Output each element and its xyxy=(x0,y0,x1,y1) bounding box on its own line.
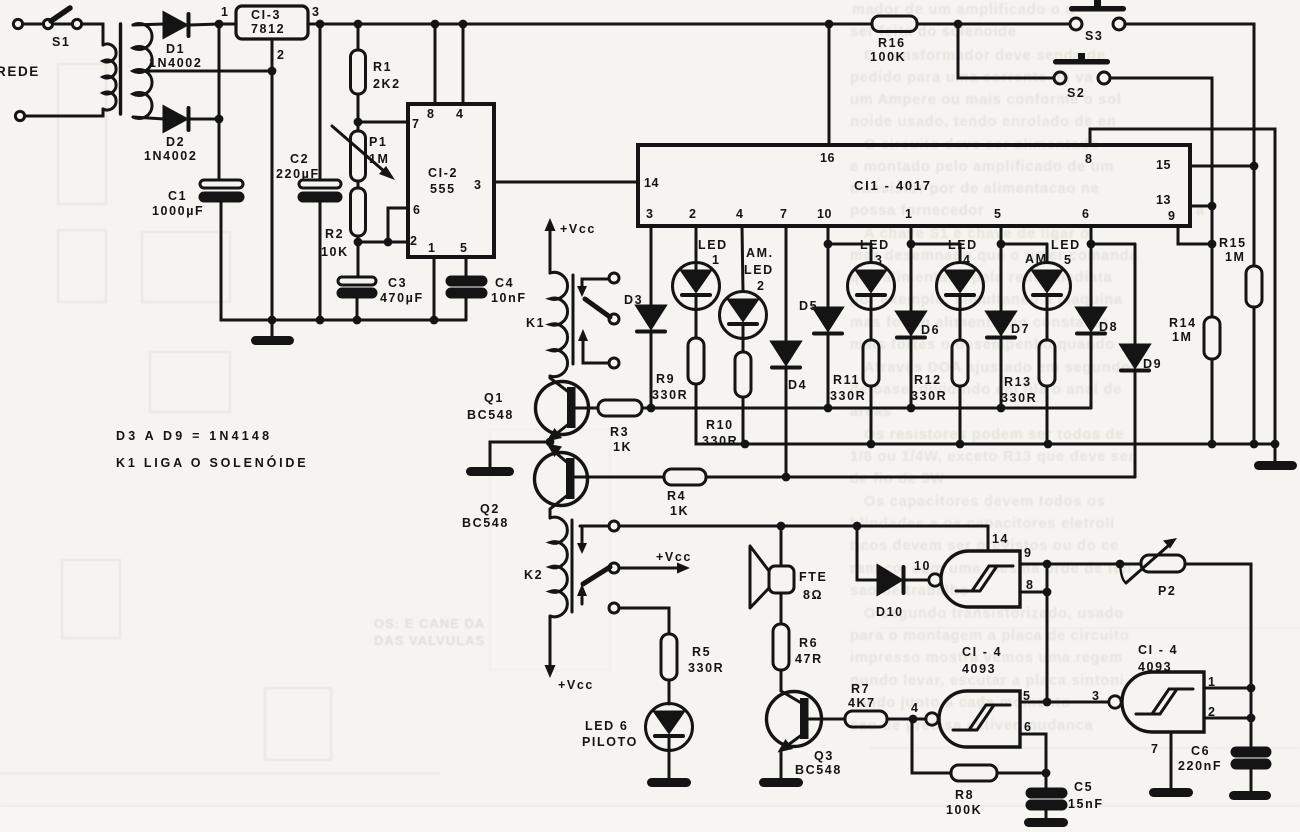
pushbutton S3 xyxy=(1069,0,1126,43)
svg-text:R9: R9 xyxy=(656,372,675,386)
wire xyxy=(917,23,1070,26)
wire pin10 xyxy=(828,226,871,244)
diode D6 xyxy=(897,244,940,408)
wire pin2 xyxy=(358,241,408,244)
svg-text:10K: 10K xyxy=(321,245,349,259)
node junction xyxy=(997,404,1006,413)
node junction xyxy=(1044,440,1053,449)
transformer core xyxy=(119,24,122,114)
node junction xyxy=(431,20,440,29)
capacitor C3 470uF xyxy=(338,276,424,320)
svg-text:8: 8 xyxy=(1085,152,1092,166)
svg-text:Q1: Q1 xyxy=(484,391,504,405)
diode D9 xyxy=(1121,244,1162,477)
LED1 xyxy=(673,238,728,310)
transformer T1 primary xyxy=(103,44,116,110)
svg-text:3: 3 xyxy=(312,5,319,19)
node junction xyxy=(1042,769,1051,778)
svg-text:6: 6 xyxy=(413,203,420,217)
wire base Q1 xyxy=(574,407,598,410)
svg-text:330R: 330R xyxy=(1001,391,1037,405)
svg-text:+Vcc: +Vcc xyxy=(656,550,692,564)
wire pin5 xyxy=(1020,701,1108,704)
svg-text:LED: LED xyxy=(744,263,774,277)
transistor Q1 BC548 xyxy=(467,376,589,442)
wire emitter node to ground xyxy=(490,442,550,468)
svg-text:D3 A D9 = 1N4148: D3 A D9 = 1N4148 xyxy=(116,429,272,443)
ground symbol xyxy=(1254,444,1297,470)
wire pin16 to rail xyxy=(828,24,831,145)
svg-text:C1: C1 xyxy=(168,189,187,203)
svg-text:mor desemnado que o timer coma: mor desemnado que o timer comanda xyxy=(850,248,1138,264)
svg-text:3: 3 xyxy=(646,207,653,221)
capacitor C5 15nF xyxy=(1027,780,1104,819)
wire pin5 xyxy=(1001,226,1047,244)
svg-text:10: 10 xyxy=(914,559,931,573)
resistor R9 330R xyxy=(652,310,704,403)
node junction xyxy=(1208,240,1217,249)
node junction xyxy=(1250,162,1259,171)
wire pin7 xyxy=(785,226,788,342)
wire pin1 to ground rail xyxy=(433,257,436,320)
svg-text:7812: 7812 xyxy=(251,22,285,36)
svg-text:15nF: 15nF xyxy=(1068,797,1104,811)
svg-text:3: 3 xyxy=(875,253,884,267)
node junction xyxy=(647,404,656,413)
wire pin1 xyxy=(911,226,960,244)
svg-text:K2: K2 xyxy=(524,568,543,582)
svg-text:R13: R13 xyxy=(1004,375,1032,389)
svg-text:R11: R11 xyxy=(833,373,860,387)
svg-text:D9: D9 xyxy=(1143,357,1162,371)
capacitor C2 220uF xyxy=(276,24,341,320)
diode D7 xyxy=(987,244,1030,408)
ground symbol xyxy=(1024,818,1068,827)
node junction xyxy=(824,240,833,249)
diode D1 1N4002 xyxy=(149,13,202,70)
svg-text:mas forem alimentacao constant: mas forem alimentacao constante xyxy=(850,315,1109,331)
svg-text:S1: S1 xyxy=(52,35,71,49)
resistor R13 330R xyxy=(1001,310,1055,445)
svg-text:C2: C2 xyxy=(290,152,309,166)
resistor R6 47R xyxy=(773,593,823,670)
svg-text:8: 8 xyxy=(1026,578,1035,592)
svg-text:BC548: BC548 xyxy=(462,516,509,530)
wire R8 feedback xyxy=(912,719,1046,773)
diode D3 xyxy=(624,293,665,408)
svg-text:5: 5 xyxy=(460,241,467,255)
node junction xyxy=(316,20,325,29)
capacitor C4 10nF xyxy=(447,276,527,320)
svg-text:8Ω: 8Ω xyxy=(803,588,823,602)
svg-text:para o montagem a placa de cir: para o montagem a placa de circuito xyxy=(850,628,1129,644)
svg-text:47R: 47R xyxy=(795,652,823,666)
svg-text:D2: D2 xyxy=(166,135,185,149)
node junction xyxy=(1087,240,1096,249)
relay coil K1 xyxy=(526,272,573,376)
svg-text:AM: AM xyxy=(1025,252,1048,266)
wire pin3 xyxy=(650,226,653,306)
svg-text:D7: D7 xyxy=(1011,322,1030,336)
ground symbol xyxy=(466,467,514,476)
wire pin7 to ground xyxy=(1170,732,1173,789)
svg-text:4093: 4093 xyxy=(962,662,996,676)
svg-text:+Vcc: +Vcc xyxy=(560,222,596,236)
svg-text:1K: 1K xyxy=(670,504,689,518)
node junction xyxy=(954,20,963,29)
svg-text:e montado pelo amplificado de: e montado pelo amplificado de um xyxy=(850,159,1114,175)
ground symbol xyxy=(1149,788,1193,797)
svg-text:Q2: Q2 xyxy=(480,502,500,516)
svg-text:D8: D8 xyxy=(1099,320,1118,334)
wire pin4 to rail xyxy=(462,24,465,104)
node junction xyxy=(1208,202,1217,211)
svg-text:6: 6 xyxy=(1024,720,1033,734)
svg-text:R4: R4 xyxy=(667,489,686,503)
+Vcc arrow K1 top xyxy=(545,218,596,273)
svg-text:16: 16 xyxy=(820,151,835,165)
resistor R3 1K xyxy=(598,400,642,454)
resistor R10 330R xyxy=(702,339,751,449)
svg-text:3: 3 xyxy=(1092,689,1101,703)
capacitor C6 220nF xyxy=(1178,744,1270,792)
svg-text:LED: LED xyxy=(948,238,978,252)
node junction xyxy=(1247,714,1256,723)
wire pin2 xyxy=(695,226,698,262)
nand gate U4c (pins 1,2,3) xyxy=(1092,672,1217,756)
wire pin9 xyxy=(1178,226,1212,244)
ground symbol xyxy=(759,778,803,787)
wire pin5 to C4 xyxy=(465,257,468,277)
svg-text:220nF: 220nF xyxy=(1178,759,1222,773)
resistor R11 330R xyxy=(830,310,879,445)
transistor Q3 BC548 xyxy=(767,670,842,779)
svg-text:REDE: REDE xyxy=(0,64,40,79)
node junction xyxy=(1271,440,1280,449)
svg-text:R7: R7 xyxy=(851,682,870,696)
relay coil K2 xyxy=(524,517,572,617)
wire pin4 xyxy=(742,226,743,292)
svg-text:BC548: BC548 xyxy=(795,763,842,777)
svg-text:LED: LED xyxy=(698,238,728,252)
wire pin1 xyxy=(1204,687,1251,690)
svg-text:1: 1 xyxy=(905,207,912,221)
svg-text:CI - 4: CI - 4 xyxy=(1138,643,1178,657)
svg-text:S2: S2 xyxy=(1067,86,1086,100)
resistor R7 4K7 xyxy=(845,682,887,727)
svg-text:BC548: BC548 xyxy=(467,408,514,422)
svg-text:5: 5 xyxy=(1064,253,1073,267)
wire xyxy=(190,118,219,121)
svg-text:2: 2 xyxy=(689,207,696,221)
node junction xyxy=(867,440,876,449)
node junction xyxy=(956,440,965,449)
node junction xyxy=(741,440,750,449)
svg-text:D1: D1 xyxy=(166,42,185,56)
svg-text:R1: R1 xyxy=(373,60,392,74)
resistor R15 1M xyxy=(1219,166,1262,444)
svg-text:5: 5 xyxy=(994,207,1001,221)
node junction xyxy=(215,115,224,124)
counter CI1 4017 xyxy=(638,145,1190,226)
label CI-4 4093 second xyxy=(1138,643,1178,674)
svg-text:Os capacitores devem todos os: Os capacitores devem todos os xyxy=(864,494,1106,510)
node junction xyxy=(268,316,277,325)
nand gate U4a (pins 8,9,10) xyxy=(929,532,1035,607)
svg-text:C3: C3 xyxy=(388,276,407,290)
diode D2 1N4002 xyxy=(144,107,197,163)
node junction xyxy=(384,238,393,247)
svg-text:330R: 330R xyxy=(702,434,738,448)
wire center tap xyxy=(133,70,272,73)
svg-text:FTE: FTE xyxy=(799,570,827,584)
node junction xyxy=(853,522,862,531)
node junction xyxy=(353,316,362,325)
svg-text:noide usado, tendo enrolado de: noide usado, tendo enrolado de en xyxy=(850,114,1116,130)
svg-text:330R: 330R xyxy=(830,389,866,403)
svg-text:1: 1 xyxy=(428,241,435,255)
svg-text:LED: LED xyxy=(1051,238,1081,252)
svg-text:2: 2 xyxy=(410,234,417,248)
svg-text:470µF: 470µF xyxy=(380,291,424,305)
potentiometer P2 xyxy=(1047,538,1185,598)
node junction xyxy=(430,316,439,325)
node junction xyxy=(907,240,916,249)
svg-text:7: 7 xyxy=(412,117,419,131)
svg-text:C5: C5 xyxy=(1074,780,1093,794)
svg-text:1000µF: 1000µF xyxy=(152,204,204,218)
svg-text:C4: C4 xyxy=(495,276,514,290)
wire xyxy=(82,24,103,45)
wire base Q2 xyxy=(573,476,664,479)
svg-text:sao de trabalho: sao de trabalho xyxy=(850,583,969,599)
wire ground bus xyxy=(696,384,1275,444)
LED5 xyxy=(1024,238,1081,310)
diode D8 xyxy=(1077,244,1118,408)
timer CI-2 555 xyxy=(408,104,494,257)
svg-text:4: 4 xyxy=(456,107,463,121)
ground symbol xyxy=(251,320,294,345)
wire xyxy=(133,117,164,119)
svg-text:K1: K1 xyxy=(526,316,545,330)
wire R7 to gate2 output xyxy=(887,718,926,721)
switch S1 xyxy=(13,8,81,49)
svg-text:2: 2 xyxy=(757,279,766,293)
wire diode bus to R3 xyxy=(642,407,1091,410)
svg-text:CI1 - 4017: CI1 - 4017 xyxy=(854,178,932,193)
svg-text:OS: E CANE DA: OS: E CANE DA xyxy=(374,616,485,631)
wire pin9 xyxy=(1020,563,1047,566)
node junction xyxy=(546,438,555,447)
node junction xyxy=(215,20,224,29)
node junction xyxy=(824,404,833,413)
svg-text:LED 6: LED 6 xyxy=(585,719,628,733)
wire +12V top rail xyxy=(308,23,872,26)
svg-text:R3: R3 xyxy=(610,425,629,439)
svg-text:330R: 330R xyxy=(652,388,688,402)
svg-text:D4: D4 xyxy=(788,378,807,392)
svg-text:220µF: 220µF xyxy=(276,167,320,181)
svg-text:100K: 100K xyxy=(870,50,906,64)
node junction xyxy=(354,238,363,247)
wire pin6 xyxy=(388,208,408,242)
node junction xyxy=(1043,698,1052,707)
svg-text:PILOTO: PILOTO xyxy=(582,735,638,749)
resistor R5 330R xyxy=(661,634,724,680)
svg-text:9: 9 xyxy=(1168,209,1175,223)
svg-text:CI - 4: CI - 4 xyxy=(962,645,1002,659)
wire base Q3 xyxy=(807,718,845,721)
transformer T1 secondary xyxy=(133,24,152,119)
wire pin8 of 4017 to ground xyxy=(1090,129,1275,444)
svg-text:10: 10 xyxy=(817,207,832,221)
wire pin15 xyxy=(1190,165,1254,168)
wire P2 to C6 column xyxy=(1185,564,1251,748)
svg-text:possa fornecedor: possa fornecedor xyxy=(850,203,984,219)
svg-text:R8: R8 xyxy=(955,788,974,802)
node junction xyxy=(1250,440,1259,449)
svg-text:14: 14 xyxy=(992,532,1009,546)
label CI-4 4093 first xyxy=(962,645,1002,676)
svg-text:C6: C6 xyxy=(1191,744,1210,758)
wire gate input column xyxy=(1046,564,1049,702)
wire xyxy=(357,181,360,188)
wire pin6 to R8/C5 xyxy=(1020,734,1046,789)
node junction xyxy=(825,20,834,29)
resistor R12 330R xyxy=(911,310,968,445)
node junction xyxy=(1247,684,1256,693)
wire pin7 xyxy=(358,121,408,124)
svg-text:4: 4 xyxy=(736,207,743,221)
node junction xyxy=(782,473,791,482)
svg-text:P2: P2 xyxy=(1158,584,1177,598)
resistor R4 1K xyxy=(664,469,706,518)
svg-text:S3: S3 xyxy=(1085,29,1104,43)
speaker FTE 8R xyxy=(750,526,827,608)
resistor R1 2K2 xyxy=(351,24,401,131)
svg-text:P1: P1 xyxy=(369,135,388,149)
wire D4/D9 bus xyxy=(706,476,1135,479)
svg-text:D10: D10 xyxy=(876,605,904,619)
svg-text:9: 9 xyxy=(1024,546,1033,560)
LED6 piloto xyxy=(582,680,693,779)
relay K1 contacts xyxy=(577,273,619,368)
wire pin8 xyxy=(1020,591,1047,594)
resistor R16 100K xyxy=(870,16,917,64)
svg-text:de fio de 5W: de fio de 5W xyxy=(850,471,945,487)
svg-text:de base, dividindo em fila o a: de base, dividindo em fila o anal de xyxy=(850,382,1122,398)
potentiometer P1 1M xyxy=(332,126,395,181)
svg-text:4K7: 4K7 xyxy=(848,696,876,710)
wire K2 bottom contact to R5 xyxy=(619,608,669,634)
node junction xyxy=(997,240,1006,249)
svg-text:R5: R5 xyxy=(692,645,711,659)
svg-text:4: 4 xyxy=(963,253,972,267)
ground symbol xyxy=(647,778,691,787)
svg-text:D5: D5 xyxy=(799,299,818,313)
diode D5 xyxy=(799,244,842,408)
wire pin3 of 555 to pin14 of 4017 xyxy=(494,181,638,184)
wire K2 to +Vcc arrow xyxy=(545,616,594,692)
node junction xyxy=(316,316,325,325)
node junction xyxy=(268,67,277,76)
wire xyxy=(1110,78,1212,206)
wire speaker rail xyxy=(620,526,988,551)
node junction xyxy=(777,522,786,531)
svg-text:DAS VALVULAS: DAS VALVULAS xyxy=(374,633,485,648)
svg-text:2K2: 2K2 xyxy=(373,77,401,91)
capacitor C1 1000uF xyxy=(152,180,243,218)
svg-text:Os resistores podem ser todos: Os resistores podem ser todos de xyxy=(864,427,1124,443)
wire xyxy=(190,24,236,25)
wire pin2 xyxy=(1204,717,1251,720)
svg-text:R15: R15 xyxy=(1219,236,1247,250)
LED3 xyxy=(848,238,895,310)
node junction xyxy=(1043,560,1052,569)
svg-text:blindades e os capacitores ele: blindades e os capacitores eletroli xyxy=(850,516,1115,532)
svg-text:2: 2 xyxy=(277,48,284,62)
svg-text:14: 14 xyxy=(644,176,659,190)
svg-text:4: 4 xyxy=(911,701,920,715)
relay K2 contacts xyxy=(577,521,619,613)
wire xyxy=(221,201,466,320)
svg-text:100K: 100K xyxy=(946,803,982,817)
svg-text:CI-2: CI-2 xyxy=(428,166,458,180)
svg-text:1: 1 xyxy=(712,253,721,267)
node junction xyxy=(909,715,918,724)
svg-text:3: 3 xyxy=(474,178,481,192)
wire pin8 to rail xyxy=(434,24,437,104)
svg-text:Q3: Q3 xyxy=(814,749,834,763)
ground symbol xyxy=(1229,791,1271,800)
svg-text:mais fortes o desempenho quand: mais fortes o desempenho quando xyxy=(850,337,1115,353)
svg-text:+Vcc: +Vcc xyxy=(558,678,594,692)
svg-text:6: 6 xyxy=(1082,207,1089,221)
svg-text:R6: R6 xyxy=(799,636,818,650)
svg-text:D6: D6 xyxy=(921,323,940,337)
LED4 xyxy=(937,238,984,310)
svg-text:1M: 1M xyxy=(1172,330,1193,344)
svg-text:R14: R14 xyxy=(1169,316,1197,330)
svg-text:K1 LIGA O SOLENÓIDE: K1 LIGA O SOLENÓIDE xyxy=(116,455,308,470)
wire pin2 of CI-3 to ground rail xyxy=(271,39,274,320)
node junction xyxy=(907,404,916,413)
wire xyxy=(958,24,1054,78)
svg-text:1N4002: 1N4002 xyxy=(144,149,197,163)
transistor Q2 BC548 xyxy=(462,444,588,531)
node junction xyxy=(459,20,468,29)
node junction xyxy=(1043,588,1052,597)
svg-text:7: 7 xyxy=(780,207,787,221)
svg-text:R16: R16 xyxy=(878,36,906,50)
resistor R2 10K xyxy=(321,188,366,277)
node junction xyxy=(354,20,363,29)
mains lower terminal xyxy=(15,111,24,120)
svg-text:15: 15 xyxy=(1156,158,1171,172)
svg-text:1M: 1M xyxy=(1225,250,1246,264)
svg-text:R10: R10 xyxy=(706,418,734,432)
svg-text:1: 1 xyxy=(221,5,228,19)
svg-text:1K: 1K xyxy=(613,440,632,454)
node junction xyxy=(354,118,363,127)
svg-text:8: 8 xyxy=(427,107,434,121)
node junction xyxy=(1208,440,1217,449)
svg-text:330R: 330R xyxy=(911,389,947,403)
svg-text:CI-3: CI-3 xyxy=(251,8,281,22)
wire pin13 xyxy=(1190,205,1212,208)
wire xyxy=(25,109,103,116)
node junction xyxy=(1116,560,1125,569)
